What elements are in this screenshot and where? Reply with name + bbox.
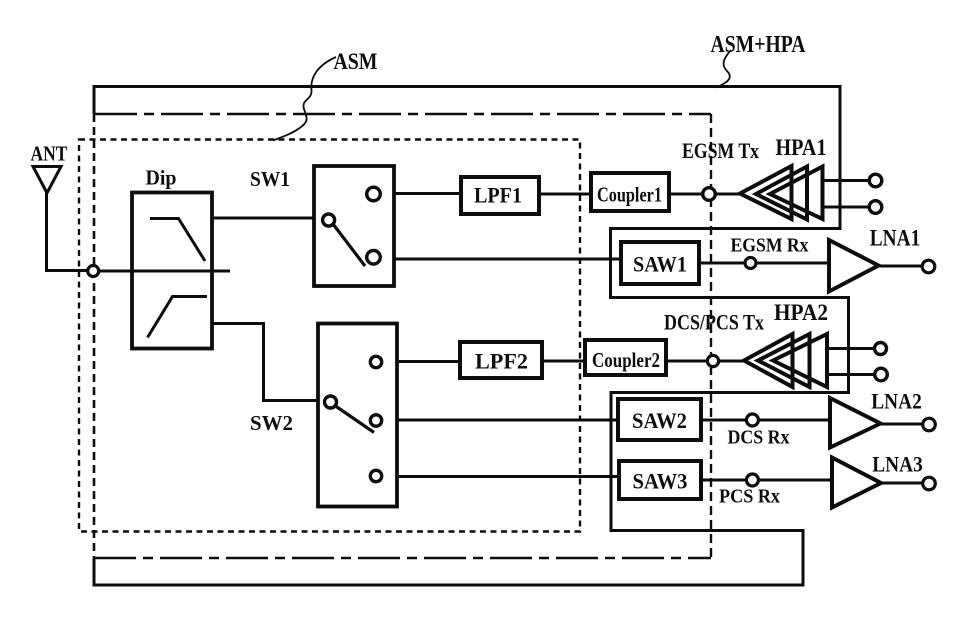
wire SAW1 to EGSM Rx node — [699, 262, 745, 265]
svg-text:ANT: ANT — [31, 142, 68, 166]
wire SW2 to LPF2 — [397, 360, 460, 363]
HPA1 output terminal top — [869, 174, 882, 187]
LNA3 output terminal — [923, 477, 936, 490]
svg-text:ASM+HPA: ASM+HPA — [711, 32, 807, 58]
svg-text:HPA2: HPA2 — [774, 300, 828, 325]
wire LNA3 to terminal — [881, 482, 923, 485]
HPA1 output stub top — [823, 179, 870, 182]
SW1 pole circle — [323, 214, 335, 226]
amplifier HPA2 triangle 3 — [773, 334, 827, 387]
svg-text:LNA3: LNA3 — [872, 452, 923, 477]
wire LNA1 to terminal — [879, 265, 923, 268]
wire antenna to node — [47, 193, 88, 271]
filter box SAW1 — [621, 242, 699, 284]
wire SAW3 to PCS Rx node — [701, 479, 746, 482]
leader line for ASM label — [273, 57, 336, 141]
wire Dip to SW1 — [212, 217, 314, 220]
svg-text:SW2: SW2 — [250, 411, 293, 435]
diplexer box Dip — [132, 193, 212, 349]
svg-text:ASM: ASM — [334, 49, 378, 74]
dash-dot inner boundary: top edge — [95, 113, 711, 116]
wire SAW2 to DCS Rx node — [701, 419, 746, 422]
ASM dashed box — [79, 140, 580, 532]
SW2 throw circle bottom — [370, 470, 381, 481]
coupler box Coupler2 — [585, 340, 666, 375]
svg-text:LNA1: LNA1 — [870, 226, 921, 251]
node DCS/PCS Tx — [707, 355, 718, 366]
node DCS Rx — [746, 414, 758, 426]
node PCS Rx — [746, 474, 758, 486]
svg-text:SAW2: SAW2 — [632, 408, 687, 433]
wire node to HPA1 — [715, 193, 741, 196]
filter box LPF1 — [461, 177, 539, 214]
node EGSM Tx — [703, 188, 716, 201]
ASM+HPA module solid boundary (staircase outline) — [94, 87, 849, 586]
antenna symbol — [33, 167, 61, 194]
switch box SW2 — [318, 324, 397, 507]
wire LPF1 to Coupler1 — [539, 193, 591, 196]
node EGSM Rx — [745, 258, 756, 269]
wire LPF2 to Coupler2 — [542, 360, 585, 363]
svg-text:PCS Rx: PCS Rx — [719, 486, 780, 508]
dash-dot inner boundary: bottom edge — [94, 557, 711, 560]
SW1 throw circle bottom — [367, 250, 381, 264]
amplifier LNA2 — [830, 398, 881, 448]
svg-text:SAW1: SAW1 — [633, 252, 687, 277]
filter box SAW3 — [619, 461, 701, 499]
wire LNA2 to terminal — [881, 423, 923, 426]
wire SW1 to SAW1 — [394, 258, 621, 261]
highpass symbol inside Dip — [148, 297, 208, 338]
svg-text:Dip: Dip — [146, 166, 177, 190]
SW2 throw circle top — [370, 356, 381, 367]
amplifier LNA3 — [832, 458, 881, 508]
HPA2 output stub top — [827, 347, 875, 350]
switch box SW1 — [314, 166, 394, 286]
dash-dot inner boundary: right edge (dashed vertical) — [710, 114, 712, 559]
node ANT port — [88, 266, 99, 277]
svg-text:DCS/PCS Tx: DCS/PCS Tx — [664, 310, 764, 335]
svg-text:LPF1: LPF1 — [474, 183, 522, 208]
wire Dip to SW2 (stepped) — [212, 324, 318, 401]
amplifier HPA2 triangle 1 — [744, 334, 793, 387]
dash-dot inner boundary: left edge — [93, 114, 96, 559]
SW1 throw circle top — [367, 187, 381, 201]
amplifier HPA1 triangle 1 — [740, 166, 792, 219]
filter box SAW2 — [618, 399, 701, 440]
wire node to HPA2 — [719, 360, 744, 363]
SW1 switch arm — [333, 224, 365, 266]
coupler box Coupler1 — [591, 173, 669, 211]
svg-text:DCS Rx: DCS Rx — [728, 427, 790, 449]
filter box LPF2 — [460, 342, 542, 378]
svg-text:LPF2: LPF2 — [475, 349, 528, 374]
wire Coupler2 to DCS/PCS Tx node — [666, 360, 708, 363]
SW2 pole circle — [325, 396, 337, 408]
svg-text:Coupler2: Coupler2 — [592, 348, 660, 372]
SW2 switch arm — [336, 406, 375, 433]
LNA1 output terminal — [922, 260, 935, 273]
amplifier HPA1 triangle 2 — [756, 167, 807, 220]
svg-text:Coupler1: Coupler1 — [597, 183, 662, 207]
SW2 throw circle middle — [370, 415, 381, 426]
wire SW2 to SAW3 — [397, 475, 619, 478]
svg-text:SW1: SW1 — [250, 167, 290, 191]
HPA1 output stub bottom — [823, 206, 870, 209]
svg-text:SAW3: SAW3 — [633, 469, 688, 494]
wire SW2 to SAW2 — [397, 419, 618, 422]
wire node to LNA2 — [759, 419, 831, 422]
wire node to LNA1 — [756, 262, 829, 265]
leader line for ASM+HPA label — [716, 50, 731, 88]
wire node to LNA3 — [759, 479, 833, 482]
wire Coupler1 to EGSM Tx node — [669, 193, 703, 196]
wire node through diplexer — [99, 270, 230, 273]
amplifier LNA1 — [829, 240, 879, 292]
svg-text:EGSM Rx: EGSM Rx — [731, 235, 810, 257]
LNA2 output terminal — [923, 418, 936, 431]
wire SW1 to LPF1 — [394, 192, 461, 195]
amplifier HPA1 triangle 3 — [770, 167, 823, 220]
HPA2 output terminal top — [875, 343, 887, 355]
HPA2 output terminal bottom — [875, 368, 888, 381]
HPA2 output stub bottom — [827, 373, 875, 376]
lowpass symbol inside Dip — [150, 219, 205, 262]
svg-text:EGSM Tx: EGSM Tx — [682, 138, 759, 163]
svg-text:LNA2: LNA2 — [871, 389, 922, 414]
HPA1 output terminal bottom — [869, 201, 882, 214]
amplifier HPA2 triangle 2 — [758, 334, 810, 387]
svg-text:HPA1: HPA1 — [776, 135, 827, 160]
